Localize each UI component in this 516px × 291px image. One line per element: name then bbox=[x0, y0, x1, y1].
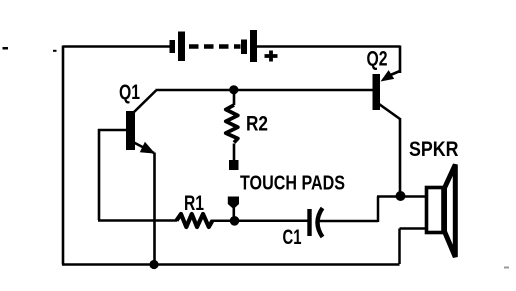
resistor R2 zigzag bbox=[226, 105, 238, 143]
wire: Q1 base loop bottom horizontal bbox=[98, 219, 177, 222]
capacitor C1 straight plate bbox=[307, 209, 311, 236]
transistor Q2 emitter arrowhead bbox=[381, 70, 395, 81]
wire: Q2 collector drop bbox=[399, 118, 402, 193]
wire: C1 to speaker bend bbox=[318, 220, 379, 223]
wire: R1 to C1 bbox=[211, 220, 308, 223]
transistor Q2 base bar bbox=[373, 74, 381, 110]
battery B1 dashed link bbox=[189, 44, 241, 49]
battery plus sign bbox=[265, 51, 278, 62]
battery B1 cell 1 positive plate bbox=[178, 32, 185, 62]
wire: Q1 collector to Q2 base rail bbox=[156, 89, 373, 92]
wire: bend riser bbox=[377, 197, 380, 223]
scan speck near top-left corner bbox=[53, 50, 57, 52]
wire: top-right drop to Q2 emitter bbox=[399, 46, 402, 74]
transistor Q1 emitter lead bbox=[132, 142, 154, 154]
transistor Q1 base bar bbox=[126, 111, 135, 150]
node: emitter/bottom-rail junction bbox=[149, 260, 158, 269]
wire: bend to speaker top terminal bbox=[377, 195, 425, 198]
wire: left rail vertical bbox=[62, 46, 65, 265]
resistor R2 bottom lead bbox=[233, 144, 236, 161]
svg-text:TOUCH PADS: TOUCH PADS bbox=[240, 172, 345, 195]
battery B1 cell 2 negative plate bbox=[241, 40, 247, 55]
wire: bottom rail bbox=[62, 263, 400, 266]
transistor Q2 emitter lead bbox=[388, 71, 400, 76]
svg-text:Q1: Q1 bbox=[119, 80, 140, 104]
node: touch pad / R1 / C1 junction bbox=[230, 216, 240, 226]
scan speck left edge bbox=[3, 47, 9, 50]
wire: speaker bottom terminal bbox=[400, 227, 426, 230]
battery B1 cell 1 negative plate bbox=[170, 40, 176, 53]
wire: Q1 base loop vertical bbox=[98, 129, 101, 220]
svg-text:R1: R1 bbox=[184, 192, 204, 215]
transistor Q1 emitter arrowhead bbox=[140, 142, 155, 154]
speaker cone bbox=[445, 165, 456, 258]
speaker driver body bbox=[427, 188, 444, 233]
svg-text:C1: C1 bbox=[283, 226, 302, 249]
wire: Q1 emitter drop bbox=[153, 153, 156, 265]
wire: top rail left segment bbox=[63, 45, 170, 48]
transistor Q2 collector lead bbox=[379, 104, 400, 119]
battery B1 cell 2 positive plate bbox=[250, 30, 257, 62]
wire: bottom-right riser bbox=[398, 229, 401, 265]
wire: top rail right segment bbox=[256, 45, 400, 48]
resistor R2 top lead bbox=[233, 90, 236, 105]
node: speaker top junction bbox=[396, 191, 406, 201]
transistor Q1 base wire bbox=[98, 129, 126, 132]
svg-text:Q2: Q2 bbox=[367, 47, 388, 71]
transistor Q1 collector lead bbox=[132, 91, 156, 115]
capacitor C1 curved plate bbox=[318, 208, 323, 237]
node: R2 top junction bbox=[229, 85, 238, 94]
touch pad lower lead bbox=[233, 207, 236, 220]
resistor R1 zigzag bbox=[177, 214, 213, 227]
touch pad lower square with point bbox=[228, 197, 239, 210]
scan speck bottom-right bbox=[504, 267, 509, 269]
touch pad upper square bbox=[229, 160, 239, 170]
svg-text:R2: R2 bbox=[246, 112, 268, 136]
svg-text:SPKR: SPKR bbox=[409, 137, 459, 161]
